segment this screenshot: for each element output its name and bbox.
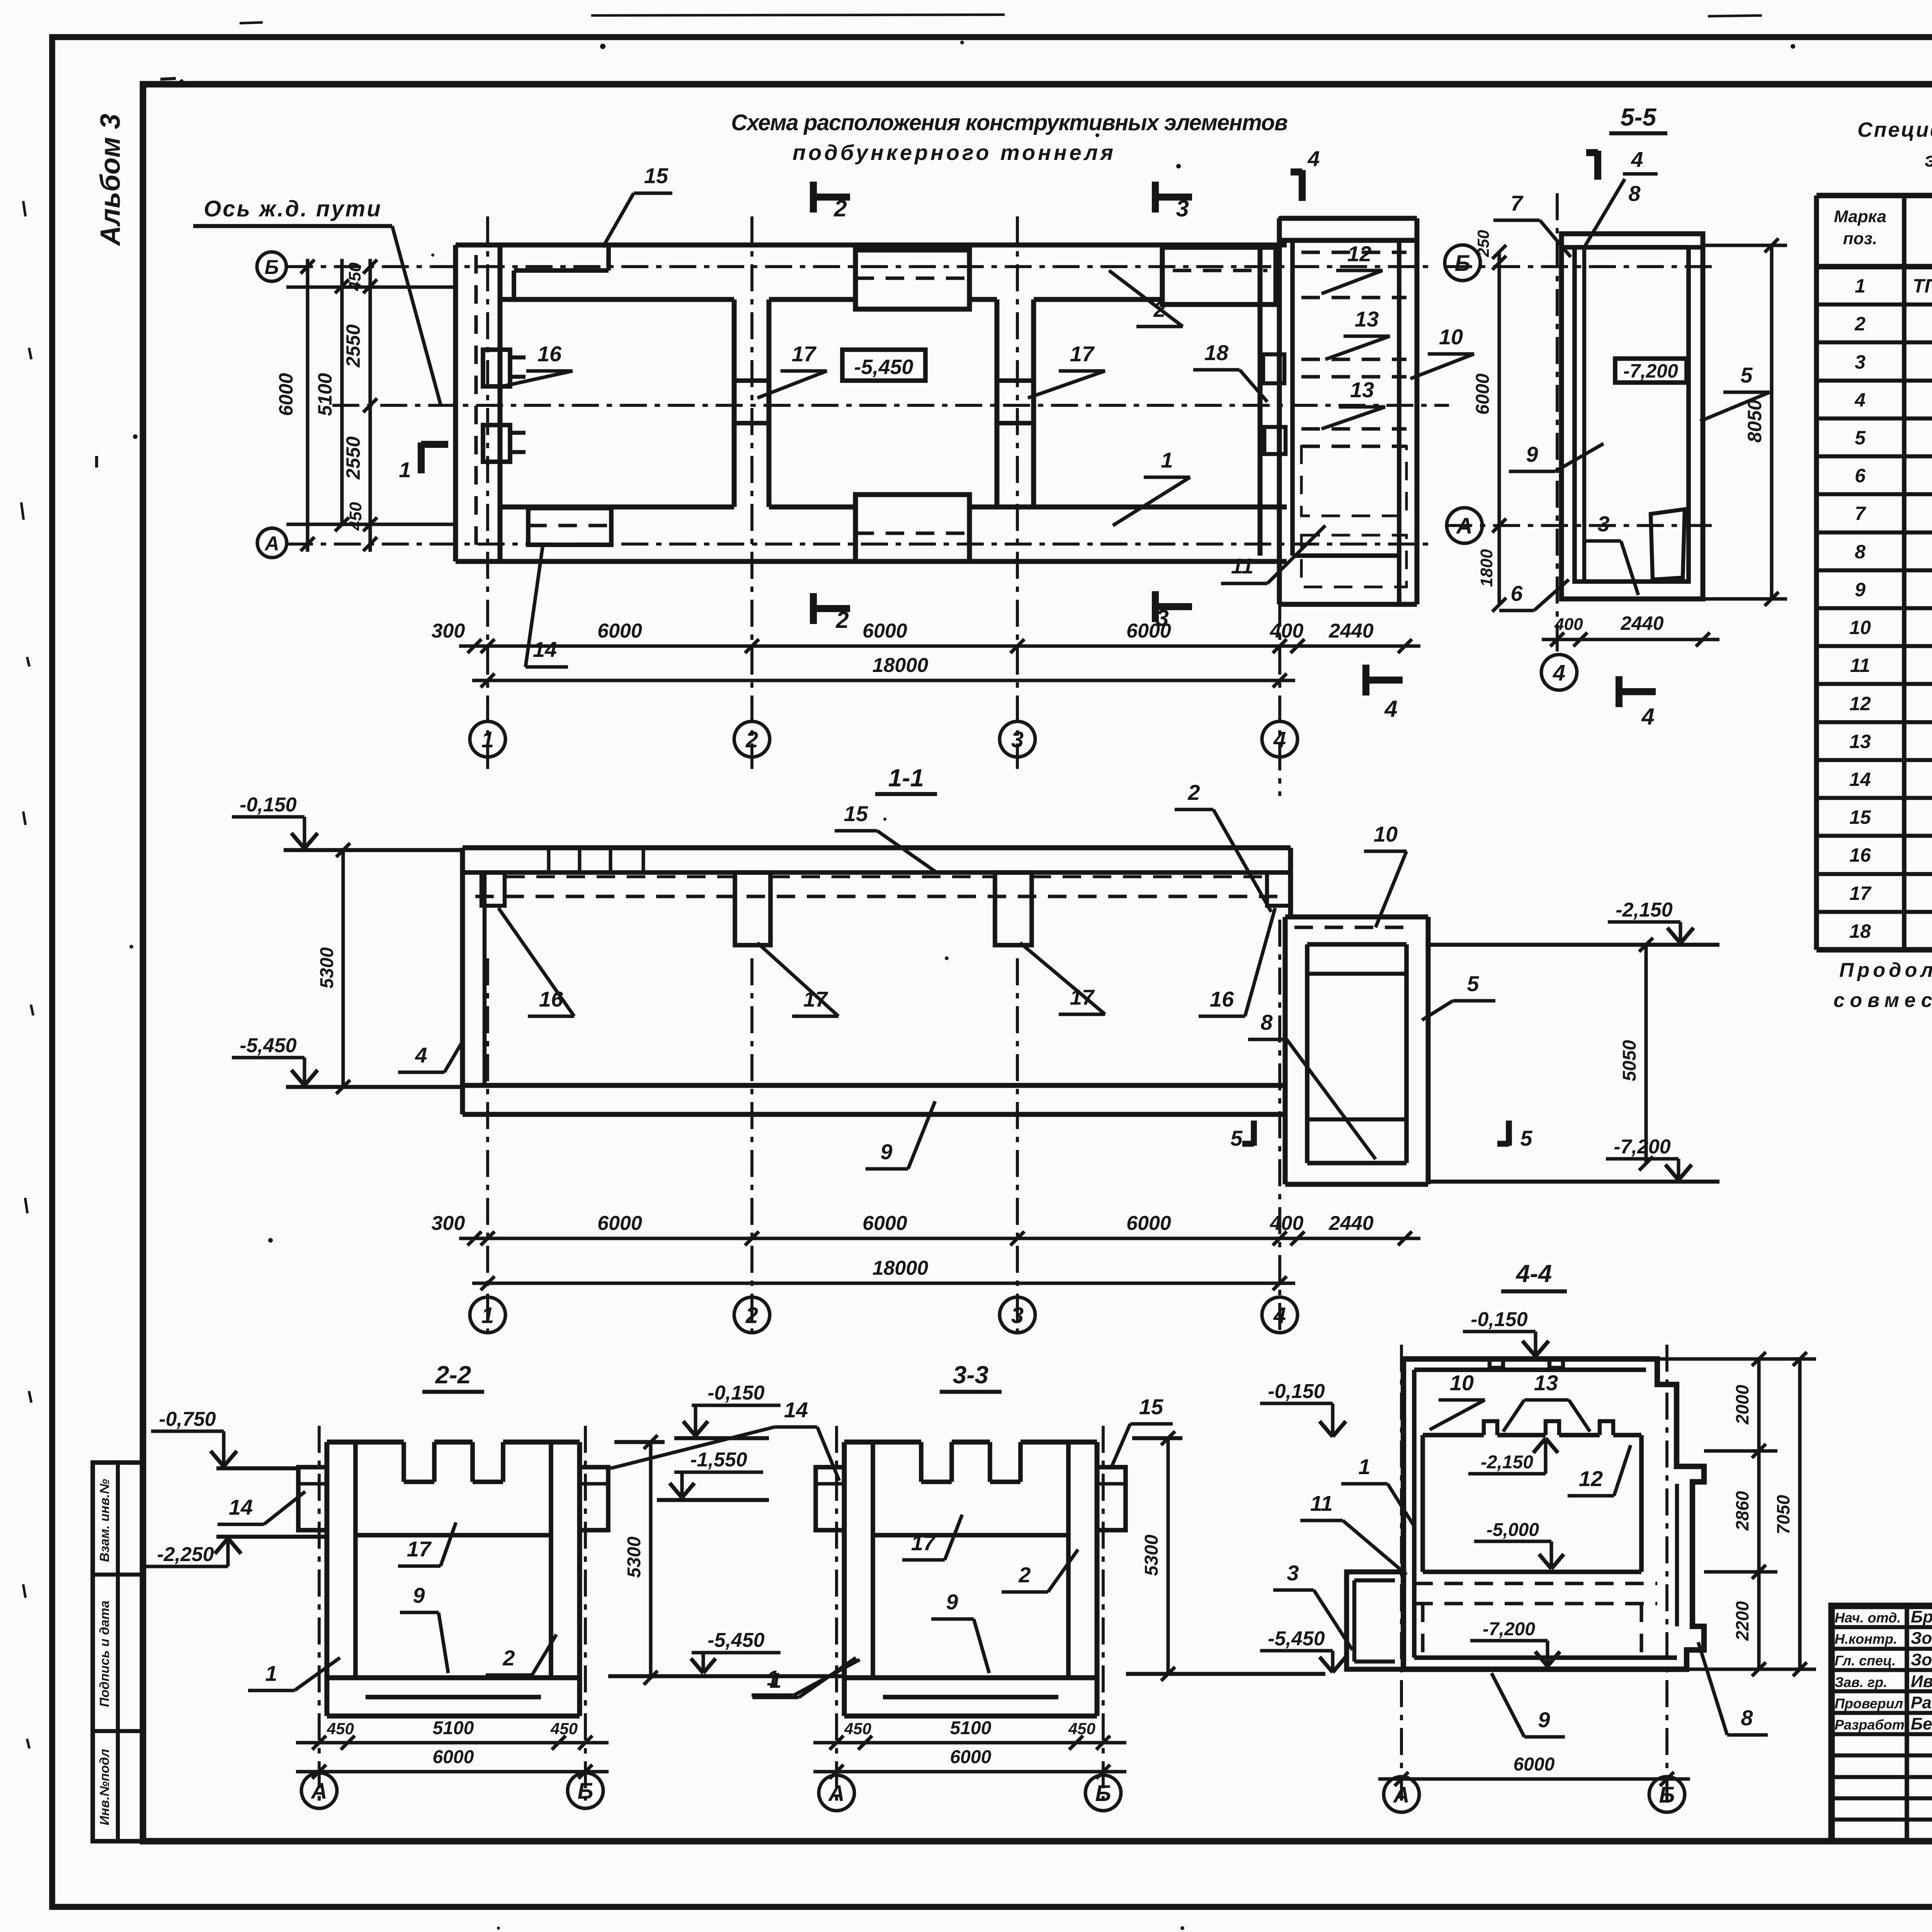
svg-text:2: 2 xyxy=(835,607,849,633)
svg-text:6: 6 xyxy=(1855,465,1866,486)
svg-text:450: 450 xyxy=(844,1719,871,1738)
svg-text:Белан: Белан xyxy=(1911,1714,1932,1733)
svg-text:элементов подбункерного тоннел: элементов подбункерного тоннеля xyxy=(1925,149,1932,171)
svg-text:5050: 5050 xyxy=(1619,1040,1640,1081)
svg-text:6000: 6000 xyxy=(597,1212,642,1235)
svg-text:16: 16 xyxy=(539,987,563,1011)
svg-text:2440: 2440 xyxy=(1620,612,1663,634)
svg-text:250: 250 xyxy=(1474,230,1492,257)
svg-text:-1,550: -1,550 xyxy=(690,1449,747,1471)
svg-text:11: 11 xyxy=(1850,655,1870,676)
svg-text:5100: 5100 xyxy=(950,1718,992,1738)
svg-text:1800: 1800 xyxy=(1477,549,1496,587)
svg-text:17: 17 xyxy=(1849,883,1872,904)
svg-text:-5,450: -5,450 xyxy=(1268,1628,1325,1650)
svg-text:8: 8 xyxy=(1260,1010,1273,1034)
svg-text:1: 1 xyxy=(481,1303,494,1328)
svg-text:5300: 5300 xyxy=(624,1536,645,1578)
svg-text:-7,200: -7,200 xyxy=(1623,360,1678,382)
svg-text:-0,750: -0,750 xyxy=(159,1408,216,1430)
svg-text:1: 1 xyxy=(1855,275,1866,297)
svg-text:5: 5 xyxy=(1740,363,1753,387)
svg-text:6000: 6000 xyxy=(1126,620,1171,642)
svg-text:4-4: 4-4 xyxy=(1515,1260,1552,1287)
svg-text:Гл. спец.: Гл. спец. xyxy=(1835,1653,1896,1668)
svg-text:11: 11 xyxy=(1310,1491,1333,1515)
svg-text:400: 400 xyxy=(1554,615,1583,634)
svg-text:4: 4 xyxy=(1854,389,1866,411)
svg-text:Разработ.: Разработ. xyxy=(1835,1717,1908,1733)
svg-text:1: 1 xyxy=(1161,448,1173,472)
svg-text:4: 4 xyxy=(1273,727,1286,752)
svg-text:1: 1 xyxy=(481,727,494,752)
svg-text:8050: 8050 xyxy=(1744,400,1765,442)
svg-text:2: 2 xyxy=(502,1646,515,1670)
svg-text:Подпись и дата: Подпись и дата xyxy=(97,1600,112,1707)
svg-text:3: 3 xyxy=(1855,351,1866,373)
svg-text:1: 1 xyxy=(769,1668,781,1692)
svg-text:-2,250: -2,250 xyxy=(157,1543,214,1566)
svg-text:4: 4 xyxy=(1273,1303,1286,1328)
svg-text:18000: 18000 xyxy=(872,1257,929,1279)
svg-text:400: 400 xyxy=(1270,620,1304,642)
svg-text:4: 4 xyxy=(1307,146,1320,171)
svg-text:6000: 6000 xyxy=(1473,373,1493,415)
svg-text:18: 18 xyxy=(1849,920,1871,942)
svg-text:6000: 6000 xyxy=(597,620,642,642)
svg-text:Проверил: Проверил xyxy=(1835,1696,1903,1711)
svg-text:9: 9 xyxy=(880,1139,892,1164)
svg-text:9: 9 xyxy=(1538,1708,1550,1732)
svg-text:14: 14 xyxy=(784,1398,808,1422)
svg-text:6000: 6000 xyxy=(950,1747,992,1767)
svg-text:17: 17 xyxy=(792,342,817,366)
svg-text:Радько: Радько xyxy=(1911,1693,1932,1712)
svg-text:Иванова: Иванова xyxy=(1911,1672,1932,1691)
svg-text:2440: 2440 xyxy=(1328,1212,1374,1235)
svg-text:1: 1 xyxy=(265,1661,277,1685)
svg-text:3-3: 3-3 xyxy=(953,1361,989,1389)
svg-text:13: 13 xyxy=(1350,378,1374,402)
svg-text:2200: 2200 xyxy=(1732,1601,1752,1641)
svg-text:15: 15 xyxy=(844,801,868,826)
svg-text:7: 7 xyxy=(1510,191,1524,215)
svg-text:18000: 18000 xyxy=(872,654,929,677)
svg-text:5100: 5100 xyxy=(433,1718,474,1738)
svg-text:4: 4 xyxy=(415,1043,427,1067)
svg-text:Схема расположения конструктив: Схема расположения конструктивных элемен… xyxy=(731,110,1288,135)
svg-text:-5,450: -5,450 xyxy=(240,1034,297,1057)
svg-text:-7,200: -7,200 xyxy=(1614,1136,1671,1158)
svg-text:Ось ж.д. пути: Ось ж.д. пути xyxy=(204,196,382,221)
svg-text:-7,200: -7,200 xyxy=(1483,1619,1535,1639)
svg-text:Н.контр.: Н.контр. xyxy=(1835,1631,1897,1647)
svg-text:2860: 2860 xyxy=(1732,1491,1752,1531)
svg-text:10: 10 xyxy=(1439,325,1463,349)
svg-text:А: А xyxy=(310,1779,327,1804)
svg-text:Марка: Марка xyxy=(1834,207,1886,226)
svg-text:5100: 5100 xyxy=(314,373,336,416)
svg-text:4: 4 xyxy=(1641,704,1654,730)
svg-text:-5,450: -5,450 xyxy=(707,1629,765,1651)
svg-text:13: 13 xyxy=(1534,1371,1558,1395)
svg-text:10: 10 xyxy=(1450,1371,1474,1395)
svg-text:13: 13 xyxy=(1355,307,1379,331)
svg-text:9: 9 xyxy=(946,1590,958,1614)
svg-text:8: 8 xyxy=(1855,541,1866,563)
svg-text:Взам. инв.№: Взам. инв.№ xyxy=(97,1479,112,1562)
svg-text:6: 6 xyxy=(1510,581,1523,605)
svg-text:2000: 2000 xyxy=(1732,1384,1752,1425)
svg-text:6000: 6000 xyxy=(1514,1754,1555,1775)
svg-text:2: 2 xyxy=(745,727,758,752)
svg-text:4: 4 xyxy=(1384,696,1397,722)
svg-text:3: 3 xyxy=(1287,1561,1299,1585)
svg-text:9: 9 xyxy=(1855,579,1866,600)
svg-text:18: 18 xyxy=(1204,340,1229,365)
svg-text:Нач. отд.: Нач. отд. xyxy=(1835,1610,1901,1626)
svg-text:5300: 5300 xyxy=(317,947,337,988)
svg-text:2: 2 xyxy=(1854,313,1866,335)
svg-text:6000: 6000 xyxy=(1126,1212,1171,1235)
svg-text:14: 14 xyxy=(533,637,557,662)
svg-text:2440: 2440 xyxy=(1328,620,1374,642)
svg-text:6000: 6000 xyxy=(275,373,297,416)
svg-text:15: 15 xyxy=(644,163,668,188)
svg-text:7050: 7050 xyxy=(1773,1495,1793,1534)
svg-text:4: 4 xyxy=(1553,660,1565,685)
svg-text:3: 3 xyxy=(1011,1303,1024,1328)
svg-text:Б: Б xyxy=(1095,1781,1111,1806)
svg-text:16: 16 xyxy=(1849,844,1871,866)
svg-text:-2,150: -2,150 xyxy=(1481,1452,1533,1473)
svg-text:11: 11 xyxy=(1231,554,1253,578)
svg-text:2: 2 xyxy=(833,196,847,221)
svg-text:1-1: 1-1 xyxy=(888,764,924,792)
svg-text:2: 2 xyxy=(745,1303,758,1328)
svg-text:4: 4 xyxy=(1631,147,1643,172)
svg-text:13: 13 xyxy=(1849,731,1871,752)
svg-text:3: 3 xyxy=(1011,727,1024,752)
svg-text:Инв.№подл: Инв.№подл xyxy=(97,1749,112,1825)
svg-text:Зав. гр.: Зав. гр. xyxy=(1835,1674,1887,1690)
svg-text:2: 2 xyxy=(1187,780,1200,804)
svg-text:15: 15 xyxy=(1849,806,1871,828)
svg-text:12: 12 xyxy=(1849,693,1871,714)
svg-text:400: 400 xyxy=(1270,1212,1304,1235)
svg-text:-5,450: -5,450 xyxy=(854,355,913,379)
svg-text:Зорин: Зорин xyxy=(1911,1650,1932,1669)
svg-text:3: 3 xyxy=(1597,512,1609,536)
svg-text:12: 12 xyxy=(1579,1466,1603,1491)
svg-text:9: 9 xyxy=(1526,442,1538,466)
svg-text:9: 9 xyxy=(413,1583,425,1607)
svg-text:450: 450 xyxy=(327,1719,354,1738)
svg-text:17: 17 xyxy=(1070,342,1095,366)
svg-text:16: 16 xyxy=(537,342,562,366)
svg-text:8: 8 xyxy=(1628,181,1641,206)
svg-text:300: 300 xyxy=(432,1212,465,1235)
svg-text:-0,150: -0,150 xyxy=(240,794,297,816)
svg-text:поз.: поз. xyxy=(1843,229,1877,248)
svg-text:7: 7 xyxy=(1855,503,1866,524)
svg-text:1: 1 xyxy=(399,457,411,482)
svg-text:17: 17 xyxy=(911,1531,936,1555)
svg-text:Зорин: Зорин xyxy=(1911,1629,1932,1648)
svg-text:17: 17 xyxy=(407,1537,432,1561)
svg-text:Б: Б xyxy=(577,1779,593,1804)
svg-text:16: 16 xyxy=(1210,987,1234,1011)
svg-text:А: А xyxy=(1456,514,1473,539)
svg-text:12: 12 xyxy=(1347,241,1371,266)
svg-text:10: 10 xyxy=(1849,617,1871,638)
svg-text:2550: 2550 xyxy=(342,324,364,367)
svg-text:17: 17 xyxy=(803,987,828,1011)
svg-text:450: 450 xyxy=(346,502,365,531)
svg-text:2-2: 2-2 xyxy=(435,1361,471,1389)
svg-text:5: 5 xyxy=(1467,971,1479,996)
svg-text:5: 5 xyxy=(1520,1126,1532,1150)
svg-text:5-5: 5-5 xyxy=(1621,103,1657,131)
svg-text:ТП 708-43.89: ТП 708-43.89 xyxy=(1913,275,1932,297)
svg-text:3: 3 xyxy=(1176,196,1189,221)
svg-text:А: А xyxy=(264,532,279,555)
svg-text:300: 300 xyxy=(432,620,465,642)
svg-text:10: 10 xyxy=(1374,822,1398,846)
svg-text:Б: Б xyxy=(1454,251,1470,276)
svg-text:5: 5 xyxy=(1855,427,1866,449)
svg-text:450: 450 xyxy=(550,1719,578,1738)
svg-text:-0,150: -0,150 xyxy=(707,1382,765,1404)
svg-text:1: 1 xyxy=(1358,1454,1370,1479)
svg-text:5: 5 xyxy=(1230,1126,1243,1150)
svg-text:-0,150: -0,150 xyxy=(1471,1308,1528,1331)
svg-text:-5,000: -5,000 xyxy=(1486,1520,1539,1540)
svg-text:подбункерного тоннеля: подбункерного тоннеля xyxy=(793,140,1113,165)
svg-text:Альбом 3: Альбом 3 xyxy=(95,114,126,246)
svg-text:Спецификация к схеме расположе: Спецификация к схеме расположения констр… xyxy=(1857,118,1932,141)
svg-text:-0,150: -0,150 xyxy=(1268,1380,1325,1403)
svg-text:6000: 6000 xyxy=(862,620,907,642)
svg-text:6000: 6000 xyxy=(862,1212,907,1235)
svg-text:15: 15 xyxy=(1139,1395,1163,1419)
svg-text:2550: 2550 xyxy=(342,436,364,480)
svg-text:5300: 5300 xyxy=(1141,1534,1162,1576)
svg-text:2: 2 xyxy=(1018,1563,1031,1587)
svg-text:Бродский: Бродский xyxy=(1911,1607,1932,1626)
svg-text:14: 14 xyxy=(1849,769,1871,790)
svg-text:8: 8 xyxy=(1741,1706,1753,1730)
svg-text:450: 450 xyxy=(1068,1719,1095,1738)
svg-text:6000: 6000 xyxy=(433,1747,474,1767)
svg-text:А: А xyxy=(828,1781,845,1806)
svg-text:14: 14 xyxy=(229,1495,253,1519)
svg-text:Б: Б xyxy=(265,256,279,279)
svg-text:-2,150: -2,150 xyxy=(1616,899,1673,921)
